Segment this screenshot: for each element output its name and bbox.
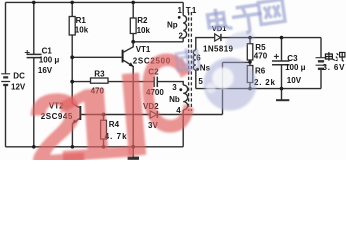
junction dot bottom rail R4 bbox=[102, 145, 106, 149]
resistor R3 wire bbox=[72, 81, 154, 83]
wire sense vertical bbox=[222, 62, 224, 114]
transistor VT2 collector bbox=[72, 103, 79, 107]
wire output bottom rail bbox=[196, 88, 321, 90]
resistor R5 leads bbox=[249, 38, 251, 66]
capacitor C3 plus sign bbox=[274, 54, 279, 59]
svg-text:5: 5 bbox=[198, 77, 203, 86]
label battery chinese dianchi bbox=[325, 52, 345, 61]
junction dot bottom rail VT1 emitter ground bbox=[131, 145, 135, 149]
phase dot Nb bbox=[179, 88, 182, 91]
svg-text:C: C bbox=[134, 29, 200, 158]
diode VD2 triangle bbox=[150, 111, 157, 118]
battery 3.6V plates bbox=[316, 58, 327, 65]
ground main symbol bbox=[132, 147, 134, 158]
svg-text:1: 1 bbox=[178, 6, 183, 15]
capacitor C1 leads bbox=[33, 2, 35, 146]
wire T1 pin6 lead bbox=[196, 38, 215, 50]
capacitor C1 plates bbox=[27, 54, 42, 57]
transistor VT2 emitter bbox=[72, 118, 79, 146]
svg-text:C1: C1 bbox=[42, 47, 53, 56]
watermark blue ring logo bbox=[204, 28, 257, 111]
wire left rail upper bbox=[5, 2, 7, 73]
transistor VT2 emitter arrow bbox=[72, 119, 77, 124]
transistor VT1 collector bbox=[124, 42, 134, 52]
capacitor C1 plus sign bbox=[25, 50, 30, 55]
ground output symbol bbox=[281, 89, 283, 100]
capacitor C3 leads bbox=[281, 38, 283, 89]
junction dot bottom rail C1 bbox=[32, 145, 36, 149]
junction dot top rail R1 bbox=[70, 1, 74, 5]
resistor R3 body bbox=[91, 78, 109, 83]
junction dot R4 top VT2 base bbox=[102, 113, 106, 117]
wire T1 pin1 lead bbox=[182, 2, 184, 15]
resistor R5 body bbox=[247, 44, 253, 60]
wire battery bottom lead bbox=[320, 70, 322, 89]
resistor R4 body bbox=[101, 120, 107, 139]
capacitor C3 plates bbox=[272, 61, 290, 65]
junction dot VT1 base node bbox=[70, 55, 74, 59]
resistor R1 leads bbox=[71, 2, 73, 103]
junction dot top rail R2 bbox=[131, 1, 135, 5]
transformer T1 feedback winding Nb bbox=[183, 85, 187, 110]
svg-text:Np: Np bbox=[167, 21, 178, 30]
junction dot R5 R6 sense node bbox=[248, 60, 252, 64]
resistor R1 body bbox=[69, 17, 75, 36]
wire sense horizontal to R5 R6 junction bbox=[223, 61, 251, 63]
junction dot output plus C3 bbox=[280, 36, 284, 40]
wire VT2 base to VD2 bbox=[81, 114, 150, 116]
wire T1 pin4 ground lead bbox=[182, 110, 184, 147]
svg-text:R2: R2 bbox=[137, 16, 148, 25]
junction dot bottom rail VT2 emitter bbox=[71, 145, 75, 149]
svg-text:R1: R1 bbox=[76, 16, 87, 25]
battery DC 12V plates bbox=[1, 74, 10, 82]
transformer T1 secondary winding Ns bbox=[193, 50, 196, 70]
transistor VT1 emitter bbox=[124, 60, 134, 147]
svg-text:C3: C3 bbox=[287, 54, 298, 63]
svg-text:R6: R6 bbox=[255, 67, 266, 76]
svg-text:470: 470 bbox=[254, 52, 268, 61]
svg-text:2. 2k: 2. 2k bbox=[254, 78, 276, 87]
svg-text:T1: T1 bbox=[186, 6, 197, 15]
svg-text:R5: R5 bbox=[255, 43, 266, 52]
diode VD1 triangle bbox=[215, 34, 221, 41]
junction dot top rail C1 bbox=[32, 1, 36, 5]
transformer T1 core bbox=[189, 12, 192, 111]
junction dot output plus R5 bbox=[248, 36, 252, 40]
transistor VT2 base bar bbox=[79, 106, 81, 120]
transformer T1 primary winding Np bbox=[183, 16, 186, 42]
capacitor C2 right wire to T1 pin3 bbox=[157, 82, 183, 85]
phase dot Np bbox=[178, 16, 181, 19]
svg-text:10V: 10V bbox=[287, 76, 302, 85]
svg-text:100 μ: 100 μ bbox=[39, 56, 60, 65]
resistor R6 bottom lead bbox=[249, 83, 251, 89]
wire collector node to T1 pin2 bbox=[133, 41, 183, 43]
resistor R4 leads bbox=[103, 115, 105, 147]
wire VT1 base line bbox=[72, 56, 121, 58]
wire left rail lower bbox=[5, 85, 7, 147]
wire VD2 cathode to sense corner bbox=[157, 114, 222, 116]
junction dot output rail R6 bbox=[248, 87, 252, 91]
wire VD1 to output plus bbox=[221, 37, 321, 39]
junction dot R3 node bbox=[70, 80, 74, 84]
wire bottom rail bbox=[6, 146, 184, 148]
svg-text:3. 6V: 3. 6V bbox=[323, 63, 346, 72]
capacitor C2 plates bbox=[154, 77, 157, 87]
watermark blue chinese chars bbox=[207, 0, 286, 38]
wire output plus corner bbox=[320, 38, 322, 58]
junction dot output rail C3 ground bbox=[280, 87, 284, 91]
transistor VT1 emitter arrow bbox=[129, 62, 134, 67]
diode VD2 cathode bar bbox=[156, 111, 158, 118]
junction dot VT1 collector node bbox=[131, 40, 135, 44]
svg-text:100 μ: 100 μ bbox=[285, 63, 306, 72]
phase dot Ns bbox=[196, 68, 199, 71]
wire T1 pin5 lead bbox=[195, 70, 197, 89]
watermark red 21IC bbox=[24, 29, 200, 191]
svg-text:10k: 10k bbox=[75, 26, 89, 35]
watermark blue char mid bbox=[175, 47, 199, 75]
diode VD1 cathode bar bbox=[220, 34, 222, 41]
resistor R2 body bbox=[130, 18, 136, 34]
transistor VT1 base bar bbox=[122, 50, 124, 63]
resistor R6 body bbox=[247, 66, 253, 83]
resistor R2 leads bbox=[132, 2, 134, 41]
wire top rail bbox=[6, 1, 184, 3]
